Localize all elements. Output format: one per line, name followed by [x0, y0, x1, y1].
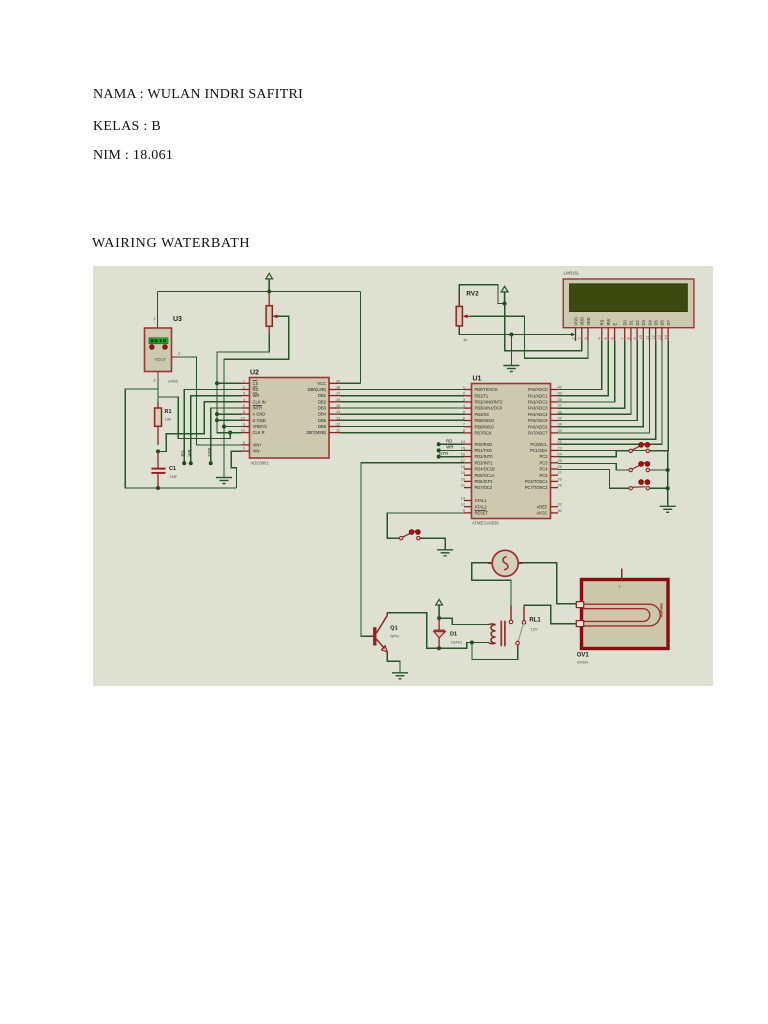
svg-text:PC0/SCL: PC0/SCL — [530, 442, 548, 447]
U2 pin 9 (VREF/2) — [242, 426, 250, 428]
svg-text:1k: 1k — [463, 337, 467, 342]
wire LCD pin 12 to U1 — [558, 341, 656, 439]
svg-text:PC6/TOSC1: PC6/TOSC1 — [525, 479, 548, 484]
svg-text:4: 4 — [243, 398, 245, 402]
wire LCD pin 7 to U1 — [558, 341, 625, 408]
wire LCD pin 8 to U1 — [558, 341, 631, 414]
svg-text:25: 25 — [558, 459, 562, 463]
svg-text:7: 7 — [243, 447, 245, 451]
svg-text:INTR: INTR — [253, 406, 263, 411]
svg-text:NTR: NTR — [439, 451, 448, 456]
svg-text:U2: U2 — [250, 370, 259, 377]
wire U3 pin3 / ground loop — [125, 377, 236, 488]
U2 pin 8 (A GND) — [242, 413, 250, 415]
svg-text:PA7/ADC7: PA7/ADC7 — [528, 431, 548, 436]
svg-text:U1: U1 — [473, 376, 482, 383]
svg-text:9: 9 — [463, 509, 465, 513]
svg-text:RV2: RV2 — [466, 291, 479, 298]
svg-text:26: 26 — [558, 465, 562, 469]
wire U2 WR net — [191, 396, 242, 464]
svg-text:29: 29 — [558, 484, 562, 488]
svg-text:WR: WR — [187, 450, 192, 457]
svg-text:20: 20 — [336, 379, 340, 383]
svg-text:18: 18 — [336, 386, 340, 390]
wire rail to U3 pin1 — [157, 292, 159, 321]
svg-text:PB3/AIN1/OC0: PB3/AIN1/OC0 — [475, 406, 503, 411]
junction VSS wire / ground — [509, 333, 513, 337]
svg-text:ADC0801: ADC0801 — [251, 461, 270, 466]
U1 pin 1 (PB0/T0/XCK) — [464, 389, 472, 391]
node VSS arrow — [571, 333, 575, 336]
relay RL1 contacts and blade — [509, 606, 526, 649]
svg-text:PD6/ICP1: PD6/ICP1 — [475, 479, 494, 484]
svg-text:CS: CS — [253, 381, 259, 386]
svg-text:17: 17 — [336, 392, 340, 396]
svg-text:PA3/ADC3: PA3/ADC3 — [528, 406, 548, 411]
wire Q1 emitter to ground — [387, 652, 400, 673]
svg-text:A GND: A GND — [253, 412, 266, 417]
U2 pin 15 (DB3) — [329, 407, 341, 409]
svg-text:OVEN: OVEN — [577, 660, 588, 665]
svg-text:DB3: DB3 — [318, 406, 327, 411]
wire U3 VOUT to U2 VIN+ — [177, 357, 242, 445]
svg-text:10: 10 — [639, 335, 643, 339]
AC source (alternator) — [488, 550, 522, 576]
U2 pin 6 (VIN+) — [242, 444, 250, 446]
svg-text:PB7/SCK: PB7/SCK — [475, 431, 493, 436]
svg-text:RD: RD — [446, 438, 452, 443]
svg-text:15: 15 — [461, 446, 465, 450]
U1 pin 22 (PC0/SCL) — [551, 443, 559, 445]
svg-text:PD3/INT1: PD3/INT1 — [475, 460, 494, 465]
wire SW2 to common — [648, 469, 668, 471]
svg-text:28: 28 — [558, 477, 562, 481]
U2 pin 2 (RD) — [242, 389, 250, 391]
svg-text:VIN-: VIN- — [253, 449, 262, 454]
svg-text:1: 1 — [243, 379, 245, 383]
U2 pin 20 (VCC) — [329, 382, 341, 384]
svg-text:RD: RD — [180, 450, 185, 456]
U1 pin 27 (PC5) — [551, 474, 559, 476]
svg-text:NTR: NTR — [207, 448, 212, 457]
LCD pin 14 (D7) — [667, 328, 669, 341]
wire U1 PC2 to SW1 — [558, 451, 629, 457]
svg-text:PD7/OC2: PD7/OC2 — [475, 485, 493, 490]
wire NTR to U1 — [439, 456, 464, 458]
wire DB1 bus — [341, 395, 465, 397]
svg-text:OV1: OV1 — [577, 653, 590, 659]
wire +V rail — [158, 291, 361, 293]
svg-text:RESET: RESET — [475, 511, 489, 516]
svg-text:38: 38 — [558, 398, 562, 402]
U1 pin 34 (PA6/ADC6) — [551, 426, 559, 428]
LCD screen — [570, 284, 688, 312]
svg-text:PC2: PC2 — [540, 454, 549, 459]
U1 pin 26 (PC4) — [551, 468, 559, 470]
U1 pin 33 (PA7/ADC7) — [551, 432, 559, 434]
svg-text:RD: RD — [253, 387, 259, 392]
U1 pin 6 (PB5/MOSI) — [464, 420, 472, 422]
svg-text:32: 32 — [558, 503, 562, 507]
svg-text:AVCC: AVCC — [536, 511, 547, 516]
LCD pin 5 (RW) — [607, 328, 609, 341]
power +V arrow (D1) — [436, 599, 443, 618]
ground (reset switch) — [437, 550, 453, 556]
U1 pin 28 (PC6/TOSC1) — [551, 480, 559, 482]
svg-text:PB4/SS: PB4/SS — [475, 412, 490, 417]
svg-text:14: 14 — [336, 410, 340, 414]
U1 pin 19 (PD5/OC1A) — [464, 474, 472, 476]
svg-text:PA6/ADC6: PA6/ADC6 — [528, 424, 548, 429]
U1 pin 21 (PD7/OC2) — [464, 487, 472, 489]
U1 pin 29 (PC7/TOSC2) — [551, 487, 559, 489]
U1 pin 39 (PA1/ADC1) — [551, 395, 559, 397]
svg-text:LM016L: LM016L — [564, 271, 580, 276]
svg-text:VOUT: VOUT — [155, 357, 167, 362]
pin 2 stub U3 — [172, 356, 178, 358]
svg-text:PB0/T0/XCK: PB0/T0/XCK — [475, 387, 498, 392]
svg-text:WR: WR — [253, 393, 260, 398]
svg-text:DB2: DB2 — [318, 399, 327, 404]
wire U2 INTR net — [211, 408, 242, 463]
capacitor C1 — [151, 451, 165, 488]
svg-text:WR: WR — [446, 445, 453, 450]
transistor-style sensor U3 (LM35) body — [145, 328, 172, 372]
wire LCD pin 9 to U1 — [558, 341, 637, 421]
wire DB5 bus — [341, 419, 465, 421]
wire DB4 bus — [341, 413, 465, 415]
svg-text:19: 19 — [461, 471, 465, 475]
svg-text:1: 1 — [463, 386, 465, 390]
svg-text:14: 14 — [664, 335, 668, 339]
wire U2 CS — [217, 382, 242, 384]
svg-text:20: 20 — [461, 477, 465, 481]
pin 1 stub U3 — [157, 320, 159, 328]
switch SW2 (PC3) — [629, 462, 650, 472]
svg-text:39: 39 — [558, 392, 562, 396]
node NTR terminal (U1) — [437, 455, 441, 459]
wire SW3 to common — [648, 487, 668, 489]
svg-text:13: 13 — [658, 335, 662, 339]
svg-text:9: 9 — [633, 337, 637, 339]
svg-text:DB5: DB5 — [318, 418, 327, 423]
oven heater element — [583, 604, 661, 626]
switch SW3 (PC4) — [629, 480, 650, 490]
U1 pin 2 (PB1/T1) — [464, 395, 472, 397]
wire U2 VIN- to ground loop — [231, 451, 241, 488]
svg-text:PA5/ADC5: PA5/ADC5 — [528, 418, 548, 423]
U2 pin 4 (CLK IN) — [242, 401, 250, 403]
svg-text:VSS: VSS — [573, 317, 578, 325]
svg-text:D1: D1 — [450, 632, 457, 638]
svg-text:RL1: RL1 — [529, 618, 541, 624]
wire RD to U1 — [439, 443, 464, 445]
svg-text:D GND: D GND — [253, 418, 266, 423]
U1 pin 8 (PB7/SCK) — [464, 432, 472, 434]
wire U2 RD net — [184, 390, 241, 464]
U1 pin 37 (PA3/ADC3) — [551, 407, 559, 409]
U1 pin 18 (PD4/OC1B) — [464, 468, 472, 470]
svg-text:AREF: AREF — [537, 504, 548, 509]
svg-text:37: 37 — [558, 404, 562, 408]
svg-text:4: 4 — [463, 404, 465, 408]
svg-text:VREF/2: VREF/2 — [253, 424, 268, 429]
svg-text:3: 3 — [243, 392, 245, 396]
svg-text:27: 27 — [558, 471, 562, 475]
U1 pin 9 (RESET) — [464, 512, 472, 514]
node RD terminal — [182, 461, 186, 465]
junction VREF/2 — [222, 425, 226, 429]
LCD pin 9 (D2) — [636, 328, 638, 341]
wire R1 top to U2 CLK R — [158, 397, 242, 438]
power +V arrow (RV2) — [501, 286, 508, 303]
svg-text:35: 35 — [558, 417, 562, 421]
junction SW3 common — [666, 486, 670, 490]
svg-text:10: 10 — [241, 416, 245, 420]
svg-text:12: 12 — [652, 335, 656, 339]
svg-text:PA0/ADC0: PA0/ADC0 — [528, 387, 548, 392]
svg-text:16: 16 — [336, 398, 340, 402]
svg-text:33: 33 — [558, 429, 562, 433]
svg-text:6: 6 — [610, 337, 614, 339]
svg-text:C1: C1 — [169, 466, 176, 472]
junction C1 bottom / bottom wire — [156, 486, 160, 490]
svg-text:PA2/ADC2: PA2/ADC2 — [528, 400, 548, 405]
wire +V to LCD VDD — [505, 304, 582, 351]
svg-text:PD0/RXD: PD0/RXD — [475, 442, 493, 447]
svg-text:PD5/OC1A: PD5/OC1A — [475, 473, 496, 478]
svg-text:D3: D3 — [641, 320, 646, 326]
svg-text:D2: D2 — [635, 320, 640, 326]
wire LCD pin 13 to U1 — [558, 341, 662, 444]
LCD pin 2 (VDD) — [581, 328, 583, 341]
svg-text:PC1/SDA: PC1/SDA — [530, 448, 548, 453]
svg-text:3: 3 — [463, 398, 465, 402]
U2 pin 10 (D GND) — [242, 419, 250, 421]
wire D1 to relay coil bottom — [439, 643, 489, 649]
svg-text:NPN: NPN — [390, 634, 399, 639]
wire pin3 to R1 top — [157, 389, 159, 402]
wire AC right to oven pin 1 — [518, 563, 576, 604]
ground (LCD) — [503, 366, 519, 372]
svg-text:7: 7 — [621, 337, 625, 339]
op-amp style IC U2 (ADC0801) body — [250, 378, 330, 459]
svg-text:PB6/MISO: PB6/MISO — [475, 424, 494, 429]
svg-text:D5: D5 — [654, 320, 659, 326]
U1 pin 12 (XTAL2) — [464, 506, 472, 508]
U3 indicator LEDs — [150, 345, 168, 349]
LCD pin 1 (VSS) — [575, 328, 577, 341]
junction CLK R — [228, 431, 232, 435]
svg-text:14: 14 — [461, 440, 465, 444]
svg-text:PB1/T1: PB1/T1 — [475, 393, 489, 398]
svg-text:D4: D4 — [647, 320, 652, 326]
LCD pin 6 (E) — [614, 328, 616, 341]
wire DB0 bus — [341, 389, 465, 391]
svg-text:CLK R: CLK R — [253, 430, 265, 435]
U1 pin 24 (PC2) — [551, 456, 559, 458]
svg-text:6: 6 — [243, 441, 245, 445]
U2 pin 11 (DB7(MSB)) — [329, 432, 341, 434]
svg-text:2: 2 — [578, 337, 582, 339]
junction rail / RV1 — [267, 290, 271, 294]
wire RV1 bottom to U2 CS/AGND/DGND/CLK R — [217, 334, 269, 433]
LCD display LM016L body — [563, 279, 694, 328]
svg-text:D6: D6 — [660, 320, 665, 326]
svg-text:12V: 12V — [531, 627, 538, 632]
oven OV1 body — [582, 580, 669, 649]
junction R1 bottom / C1 — [156, 449, 160, 453]
svg-text:VDD: VDD — [580, 317, 585, 326]
svg-text:DB7(MSB): DB7(MSB) — [306, 430, 326, 435]
svg-text:PC3: PC3 — [540, 460, 549, 465]
svg-text:PC5: PC5 — [540, 473, 549, 478]
wire LCD pin 11 to U1 — [558, 341, 650, 433]
wire SW1 to common — [648, 451, 668, 506]
U2 pin 12 (DB6) — [329, 426, 341, 428]
wire LCD pin 14 to U1 — [558, 341, 668, 450]
svg-text:12: 12 — [336, 423, 340, 427]
node NTR terminal — [209, 461, 213, 465]
svg-text:PD1/TXD: PD1/TXD — [475, 448, 492, 453]
U1 pin 25 (PC3) — [551, 462, 559, 464]
node WR terminal (U1) — [437, 448, 441, 452]
svg-text:VCC: VCC — [317, 381, 326, 386]
svg-text:6: 6 — [463, 417, 465, 421]
pin stub oven top — [621, 568, 623, 579]
U1 pin 13 (XTAL1) — [464, 500, 472, 502]
svg-text:PB2/AIN0/INT2: PB2/AIN0/INT2 — [475, 400, 504, 405]
svg-text:13: 13 — [461, 497, 465, 501]
pin 3 stub U3 — [157, 372, 159, 378]
potentiometer RV1 — [266, 292, 277, 334]
ground (switches) — [660, 506, 676, 512]
U1 pin 30 (AVCC) — [551, 512, 559, 514]
potentiometer RV2 — [456, 291, 470, 332]
wire relay contact2 to oven pin 2 — [524, 605, 576, 624]
svg-text:5: 5 — [604, 337, 608, 339]
LCD pin 7 (D0) — [624, 328, 626, 341]
wire to ground (LCD) — [510, 335, 512, 366]
wire U1 PD3 to Q1 base — [361, 463, 464, 636]
wire relay blade return — [472, 643, 518, 660]
wire rail down to U2 VCC — [360, 292, 362, 384]
svg-text:21: 21 — [461, 484, 465, 488]
svg-text:2: 2 — [463, 392, 465, 396]
svg-text:9: 9 — [243, 423, 245, 427]
svg-text:D1: D1 — [629, 320, 634, 326]
svg-text:18: 18 — [461, 465, 465, 469]
wire DB6 bus — [341, 426, 465, 428]
diode D1 (1N/10A01) — [434, 618, 446, 648]
junction A GND — [215, 412, 219, 416]
ground (U2 area) — [216, 478, 232, 484]
junction CS — [215, 381, 219, 385]
junction D1 cathode — [437, 616, 441, 620]
svg-text:RW: RW — [606, 319, 611, 326]
U1 pin 36 (PA4/ADC4) — [551, 413, 559, 415]
relay RL1 core — [501, 621, 505, 647]
svg-text:PC7/TOSC2: PC7/TOSC2 — [525, 485, 548, 490]
svg-text:34: 34 — [558, 423, 562, 427]
U2 pin 18 (DB0(LSB)) — [329, 389, 341, 391]
svg-text:10k: 10k — [165, 417, 171, 422]
wire R1 bottom to U2 CLK IN — [158, 402, 242, 452]
wire AC left to relay contact — [472, 563, 511, 606]
U1 pin 16 (PD2/INT0) — [464, 456, 472, 458]
U2 pin 16 (DB2) — [329, 401, 341, 403]
U2 pin 13 (DB5) — [329, 419, 341, 421]
wire U2 A GND — [217, 413, 242, 415]
svg-text:R1: R1 — [165, 409, 172, 415]
svg-text:17: 17 — [461, 459, 465, 463]
wire U2 VCC — [341, 382, 361, 384]
wire RV1 wiper to VREF/ground — [224, 316, 289, 477]
svg-text:13: 13 — [336, 416, 340, 420]
LCD pin 3 (VEE) — [587, 328, 589, 341]
switch SW1 (PC2) — [629, 442, 650, 452]
svg-text:4: 4 — [598, 337, 602, 339]
svg-text:D7: D7 — [666, 320, 671, 326]
U2 pin 7 (VIN-) — [242, 450, 250, 452]
svg-text:CLK IN: CLK IN — [253, 399, 266, 404]
svg-text:11: 11 — [645, 336, 649, 340]
svg-text:XTAL2: XTAL2 — [475, 504, 488, 509]
svg-text:Q1: Q1 — [390, 626, 397, 632]
wire RV2 bottom to LCD VSS — [459, 326, 571, 335]
wire U1 RESET to switch — [387, 513, 464, 538]
U2 pin 5 (INTR) — [242, 407, 250, 409]
svg-text:E: E — [612, 323, 617, 326]
svg-text:RS: RS — [600, 320, 605, 326]
U1 pin 14 (PD0/RXD) — [464, 443, 472, 445]
wire DB7 bus — [341, 432, 465, 434]
svg-text:2: 2 — [243, 386, 245, 390]
svg-text:3: 3 — [584, 337, 588, 339]
wire DB2 bus — [341, 401, 465, 403]
microcontroller U1 (ATMEGA8535) body — [472, 384, 551, 519]
wire LCD pin 10 to U1 — [558, 341, 643, 427]
svg-text:VIN+: VIN+ — [253, 443, 263, 448]
svg-text:5: 5 — [463, 410, 465, 414]
svg-text:8: 8 — [243, 410, 245, 414]
wire WR to U1 — [439, 449, 464, 451]
svg-text:PD2/INT0: PD2/INT0 — [475, 454, 494, 459]
junction SW2 common — [666, 468, 670, 472]
U1 pin 5 (PB4/SS) — [464, 413, 472, 415]
svg-text:7: 7 — [463, 423, 465, 427]
svg-text:VEE: VEE — [586, 317, 591, 325]
svg-text:10A01: 10A01 — [451, 640, 463, 645]
svg-text:LM35: LM35 — [168, 379, 179, 384]
U1 pin 40 (PA0/ADC0) — [551, 389, 559, 391]
svg-text:22: 22 — [558, 440, 562, 444]
ground (Q1) — [392, 673, 408, 679]
svg-text:DB0(LSB): DB0(LSB) — [308, 387, 327, 392]
switch SW4 (reset) — [400, 530, 421, 540]
U2 pin 17 (DB1) — [329, 395, 341, 397]
transistor Q1 (NPN) — [369, 613, 388, 652]
wire D1 to relay coil top — [439, 618, 489, 624]
svg-text:ATMEGA8535: ATMEGA8535 — [472, 521, 499, 526]
oven terminal pins — [576, 602, 583, 627]
wire U2 VREF/2 — [224, 426, 242, 428]
svg-text:PB5/MOSI: PB5/MOSI — [475, 418, 494, 423]
power +V arrow (rail) — [266, 273, 273, 291]
svg-text:15: 15 — [336, 404, 340, 408]
junction RV2 +V — [503, 302, 507, 306]
LCD pin 13 (D6) — [661, 328, 663, 341]
